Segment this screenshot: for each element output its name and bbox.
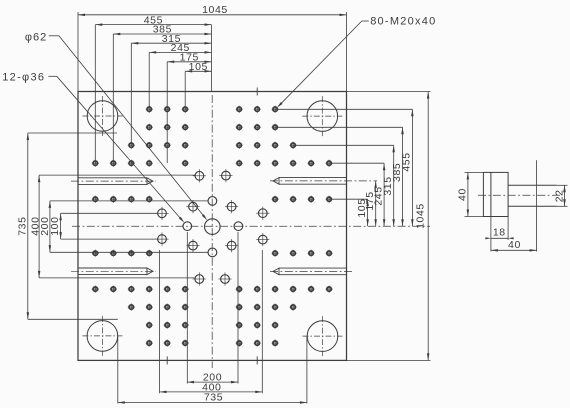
side view shaft bottom line xyxy=(508,205,557,207)
extension line left pair col down xyxy=(159,250,161,393)
phi36 hole diagonal upper-left xyxy=(186,200,199,213)
phi36 hole right pair lower xyxy=(256,233,269,246)
T-slot left lower xyxy=(71,268,156,275)
extension line plate top-right corner up xyxy=(346,12,348,92)
T-slot right lower xyxy=(270,268,353,275)
extension line 40 right vertical xyxy=(536,160,538,251)
svg-text:80-M20x40: 80-M20x40 xyxy=(370,16,436,28)
extension line phi36 right col down xyxy=(237,232,239,384)
dimension 105 top xyxy=(185,70,211,72)
leader phi62 xyxy=(49,35,59,37)
extension line left pair upper row xyxy=(61,212,158,214)
dimension 200 bottom xyxy=(187,381,238,383)
leader 12-phi36 xyxy=(48,75,56,77)
svg-text:40: 40 xyxy=(457,188,469,201)
extension line upper pair row left xyxy=(39,174,195,176)
extension row 385 to right stack xyxy=(275,126,402,128)
extension line plate top-left corner up xyxy=(77,12,79,92)
leader 80-M20x40 xyxy=(362,20,369,22)
extension line tie-bar top tangent left xyxy=(28,132,117,134)
dimension 245 top xyxy=(149,51,211,53)
tie-bar hole circle top-left xyxy=(83,96,123,136)
extension row 315 to right stack xyxy=(293,144,394,146)
svg-text:40: 40 xyxy=(508,239,521,251)
tick col 175R top edge xyxy=(256,88,258,96)
phi36 hole lower pair left xyxy=(193,272,206,285)
phi36 hole top (on axis) xyxy=(208,197,217,206)
dimension 40 side height xyxy=(467,172,469,216)
svg-text:18: 18 xyxy=(493,226,506,238)
T-slot left upper xyxy=(71,178,156,185)
extension line phi36 left col down xyxy=(186,232,188,384)
extension line tie-bar right tangent down xyxy=(117,336,119,403)
tie-bar hole circle top-right xyxy=(302,96,342,136)
side view shaft top line xyxy=(508,184,557,186)
svg-text:1045: 1045 xyxy=(415,203,427,229)
extension line phi36 bottom row left xyxy=(50,251,208,253)
dimension 175 top xyxy=(167,61,211,63)
dimension 315 top xyxy=(131,42,211,44)
common right extension at center for stacked dims xyxy=(211,25,213,92)
dimension 1045 top xyxy=(78,14,347,16)
svg-text:455: 455 xyxy=(401,152,413,171)
extension line left pair lower row xyxy=(61,238,158,240)
dimension 1045 right xyxy=(427,92,429,361)
phi36 hole upper pair left xyxy=(193,169,206,182)
extension line right pair col down xyxy=(261,250,263,393)
extension lines 40 left xyxy=(465,171,484,173)
extension line col 455L down to hole xyxy=(94,25,96,164)
phi36 hole left (on axis) xyxy=(183,222,192,231)
dimension 245 right xyxy=(383,163,385,226)
extension line col 245L down to hole xyxy=(148,52,150,109)
dimension 385 right xyxy=(402,127,404,226)
phi36 hole lower pair right xyxy=(218,272,231,285)
side view internal line (thread depth) xyxy=(490,172,492,216)
dimension 735 left xyxy=(27,133,29,319)
tie-bar hole circle bottom-right xyxy=(303,316,343,356)
dimension 175 right xyxy=(375,181,377,226)
svg-text:φ62: φ62 xyxy=(25,31,47,43)
extension row 105 to right stack xyxy=(329,198,368,200)
dimension 105 right xyxy=(367,199,369,226)
svg-text:735: 735 xyxy=(204,392,223,404)
svg-text:1045: 1045 xyxy=(202,4,228,16)
dimension 455 right xyxy=(411,109,413,226)
extension line col 385L down to hole xyxy=(112,34,114,163)
extension line tie-bar bottom tangent left xyxy=(28,318,118,320)
extension row 245 to right stack xyxy=(329,162,384,164)
dimension 385 top xyxy=(113,33,211,35)
horizontal center line xyxy=(72,225,430,227)
extension row 455 to right stack xyxy=(275,108,412,110)
extension line tie-bar left tangent down xyxy=(306,336,308,403)
dimension 40 bottom side xyxy=(491,249,537,251)
extension line phi36 top row left xyxy=(50,200,208,202)
center hole phi62 xyxy=(205,219,221,235)
dimension 400 bottom xyxy=(160,391,263,393)
tie-bar hole circle bottom-left xyxy=(82,316,122,356)
extension line col 315L down to hole xyxy=(130,43,132,145)
dimension 400 left xyxy=(38,175,40,278)
tick col 175R bottom edge xyxy=(256,356,258,364)
tick col 175L bottom edge xyxy=(166,356,168,364)
phi36 hole right (on axis) xyxy=(234,222,243,231)
dimension 22 shaft xyxy=(564,185,566,206)
phi36 hole diagonal upper-right xyxy=(225,200,238,213)
dimension 100 left xyxy=(60,213,62,239)
extension lines 22 right xyxy=(557,184,568,186)
side view center line xyxy=(478,194,562,196)
phi36 hole left pair upper xyxy=(155,207,168,220)
vertical center line xyxy=(211,95,213,368)
extension line side right face down xyxy=(507,217,509,241)
extension line col 105L down to hole xyxy=(184,71,186,109)
svg-text:22: 22 xyxy=(554,189,566,202)
svg-text:100: 100 xyxy=(49,216,61,235)
T-slot right upper xyxy=(270,178,377,185)
dimension 315 right xyxy=(393,145,395,226)
svg-text:735: 735 xyxy=(17,216,29,235)
extension line internal line down xyxy=(490,217,492,252)
side view section body xyxy=(483,172,508,216)
dimension 18 xyxy=(491,237,508,239)
phi36 hole diagonal lower-left xyxy=(186,239,199,252)
dimension 455 top xyxy=(95,24,211,26)
phi36 hole bottom (on axis) xyxy=(208,248,217,257)
extension line plate top-right to 1045 right xyxy=(347,91,431,93)
extension line col 175L down to hole xyxy=(166,62,168,163)
platen plate outline xyxy=(78,92,347,361)
dimension 200 left xyxy=(49,201,51,252)
phi36 hole diagonal lower-right xyxy=(225,239,238,252)
svg-text:12-φ36: 12-φ36 xyxy=(2,72,45,84)
extension line lower pair row left xyxy=(39,277,194,279)
80-M20x40 tapped hole grid xyxy=(146,106,153,113)
phi36 hole left pair lower xyxy=(155,233,168,246)
svg-text:105: 105 xyxy=(189,61,208,73)
extension line plate bottom-right to 1045 right xyxy=(347,359,431,361)
dimension 735 bottom xyxy=(118,402,307,404)
phi36 hole right pair upper xyxy=(256,207,269,220)
phi36 hole upper pair right xyxy=(219,169,232,182)
